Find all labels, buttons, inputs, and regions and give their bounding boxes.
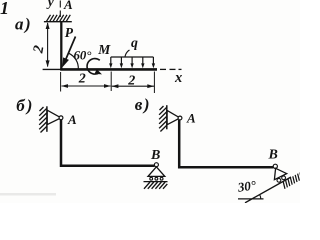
scan artifact bottom-left	[0, 193, 56, 196]
fixed support ceiling line (fig a)	[44, 21, 72, 23]
wall hatching support A (fig v)	[159, 106, 166, 132]
thin left extension of beam line	[43, 68, 62, 70]
pin triangle support A (fig v)	[167, 110, 180, 124]
pin circle A (fig b)	[59, 116, 63, 120]
vertical dimension line (left)	[47, 23, 49, 67]
extension line mid	[110, 72, 112, 92]
ground hatching B (fig b)	[144, 182, 167, 189]
svg-text:y: y	[46, 0, 55, 9]
distributed load q top line	[111, 56, 154, 58]
horizontal beam (fig a)	[60, 68, 157, 71]
horizontal reference line (fig v)	[238, 198, 264, 200]
svg-text:x: x	[174, 70, 182, 86]
dimension line 2 (first span)	[62, 85, 111, 87]
svg-text:M: M	[97, 42, 111, 57]
moment M arrowhead	[95, 69, 104, 77]
svg-text:A: A	[67, 112, 77, 127]
roller support triangle B (fig b)	[148, 167, 165, 177]
fixed support hatching (fig a)	[47, 15, 71, 21]
svg-text:2: 2	[127, 73, 135, 88]
roller support triangle B (fig v, inclined)	[274, 168, 286, 179]
svg-text:а): а)	[15, 14, 32, 33]
pin triangle support A (fig b)	[47, 110, 61, 124]
svg-text:A: A	[63, 0, 73, 12]
svg-text:30°: 30°	[236, 177, 258, 195]
svg-text:B: B	[268, 148, 278, 163]
svg-text:2: 2	[78, 71, 86, 86]
distributed load arrows	[111, 57, 154, 66]
30 degree arc (fig v)	[260, 195, 261, 199]
svg-text:A: A	[186, 111, 196, 126]
rollers under B (fig v)	[277, 176, 286, 182]
y-axis dashed line	[59, 1, 61, 18]
inclined surface line (fig v)	[245, 177, 291, 203]
wall hatching support A (fig b)	[39, 107, 46, 133]
moment M arc	[87, 59, 100, 75]
dashed x-axis extension	[160, 68, 182, 70]
svg-text:P: P	[65, 25, 74, 40]
pin circle B (fig b)	[154, 163, 158, 167]
pin circle B (fig v)	[273, 164, 277, 168]
svg-text:B: B	[150, 148, 160, 163]
pin circle A (fig v)	[178, 116, 182, 120]
dimension line 2 (second span)	[112, 85, 154, 87]
60 degree arc	[69, 53, 79, 69]
extension line at corner	[60, 72, 62, 92]
svg-text:б): б)	[16, 96, 34, 115]
wall line support A (fig v)	[166, 105, 168, 129]
force P arrowhead	[59, 57, 69, 68]
inclined surface hatching (fig v)	[283, 172, 301, 189]
extension line right	[153, 72, 155, 94]
q leader tick	[125, 50, 130, 57]
vertical member (fig a)	[60, 22, 62, 70]
L-frame member (fig b)	[61, 120, 155, 166]
wall line support A (fig b)	[46, 106, 48, 132]
svg-text:1: 1	[0, 0, 9, 18]
force P line	[64, 37, 76, 64]
rollers under B (fig b)	[150, 177, 163, 180]
svg-text:в): в)	[135, 95, 151, 114]
svg-text:q: q	[131, 35, 138, 50]
L-frame member (fig v)	[179, 120, 273, 167]
ground line B (fig b)	[144, 181, 168, 183]
